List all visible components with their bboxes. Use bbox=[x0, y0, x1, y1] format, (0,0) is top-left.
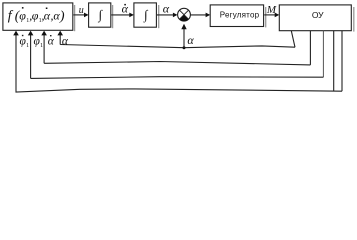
svg-text:Регулятор: Регулятор bbox=[220, 11, 260, 20]
integrator I2 bbox=[134, 3, 157, 27]
shadow I2 bbox=[158, 5, 160, 28]
shadow OU bbox=[353, 7, 355, 32]
node J1 (junction dot) bbox=[183, 46, 186, 49]
shadow F bbox=[74, 5, 76, 31]
svg-text:φ: φ bbox=[19, 8, 26, 22]
wire extra OU output drop to outer line bbox=[333, 31, 335, 91]
svg-text:ОУ: ОУ bbox=[312, 10, 324, 20]
wire REG to OU with label M bbox=[264, 4, 279, 17]
svg-text:α: α bbox=[187, 33, 194, 47]
block OU (ОУ) bbox=[279, 5, 351, 31]
wire I1 to I2 with label alpha-dot bbox=[111, 2, 134, 18]
svg-text:1: 1 bbox=[40, 43, 43, 49]
wire F to I1 with label u bbox=[74, 5, 89, 17]
svg-text:1: 1 bbox=[26, 43, 29, 49]
label phi1 (input 2) bbox=[34, 35, 44, 49]
feedback L3 phi1 bbox=[28, 31, 324, 79]
svg-text:): ) bbox=[59, 9, 65, 24]
shadow I1 bbox=[112, 5, 114, 28]
svg-text:α: α bbox=[163, 2, 170, 16]
svg-text:α: α bbox=[48, 35, 55, 47]
label phi1-dot (input 1) bbox=[20, 35, 30, 49]
label alpha (input 4) bbox=[62, 35, 69, 47]
feedback L2 alpha-dot bbox=[41, 31, 310, 65]
svg-text:M: M bbox=[266, 4, 277, 16]
wire junction up to summer with label alpha bbox=[181, 24, 194, 48]
feedback L4 phi1-dot (outermost) bbox=[13, 31, 342, 92]
integrator I1 bbox=[89, 3, 111, 27]
feedback L1 alpha: OU down, left to F input 4, junction to summer bbox=[57, 31, 295, 48]
svg-text:u: u bbox=[79, 5, 84, 16]
svg-text:α: α bbox=[122, 2, 129, 16]
summer S1 (circle with X) bbox=[178, 8, 191, 21]
shadow REG bbox=[265, 7, 267, 27]
wire I2 to summer with label alpha bbox=[157, 2, 178, 18]
block F f(phi1dot,phi1,alphadot,alpha) bbox=[3, 3, 73, 30]
label alpha-dot (input 3) bbox=[48, 35, 55, 47]
wire summer to REG bbox=[190, 13, 210, 18]
block REG (Регулятор) bbox=[210, 5, 263, 27]
svg-text:α: α bbox=[62, 35, 69, 47]
